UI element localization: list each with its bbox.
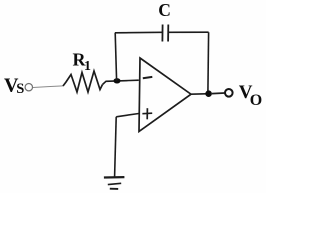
wire resistor to inverting input xyxy=(103,80,139,84)
wire feedback top left horizontal xyxy=(115,31,163,34)
wire capacitor to right corner xyxy=(169,31,209,33)
wire input terminal to resistor xyxy=(33,86,63,88)
wire op-amp output xyxy=(191,93,206,95)
node junction at output xyxy=(205,90,212,97)
node Vs input terminal xyxy=(25,84,32,91)
capacitor C right plate xyxy=(167,25,169,42)
svg-text:1: 1 xyxy=(84,59,91,74)
capacitor C left plate xyxy=(161,25,163,42)
wire feedback right vertical xyxy=(207,32,210,93)
node junction at inverting input xyxy=(114,78,121,83)
op-amp U1 triangle xyxy=(139,58,191,132)
svg-text:C: C xyxy=(158,0,171,20)
label Vs xyxy=(4,75,24,98)
label R1 xyxy=(73,50,92,75)
wire noninverting input xyxy=(116,114,139,117)
op-amp plus sign xyxy=(142,108,152,119)
ground symbol xyxy=(104,177,125,189)
svg-text:S: S xyxy=(16,81,24,97)
wire feedback left vertical xyxy=(115,33,116,81)
label Vo xyxy=(239,82,262,109)
node Vo output terminal xyxy=(225,89,233,97)
svg-text:O: O xyxy=(250,92,262,109)
wire ground vertical xyxy=(115,117,117,177)
op-amp minus sign xyxy=(143,77,153,78)
resistor R1 xyxy=(63,71,103,92)
wire output to terminal xyxy=(212,92,225,95)
